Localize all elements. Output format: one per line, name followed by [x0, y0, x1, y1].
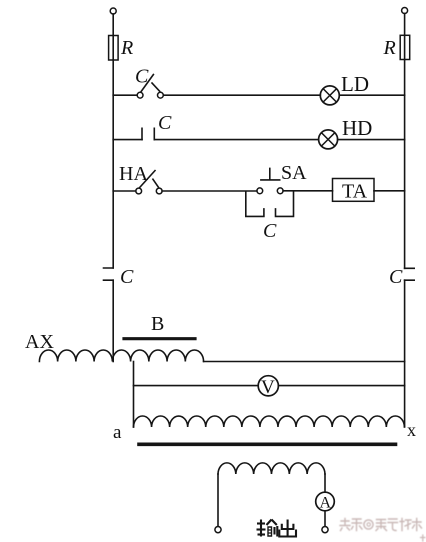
capacitor C (right): [405, 268, 415, 280]
terminal right top: [402, 8, 408, 14]
wire output right leg upper: [324, 474, 326, 492]
wire row2 mid: [154, 139, 318, 141]
contact C row2: [141, 128, 143, 139]
svg-text:HA: HA: [119, 163, 148, 185]
capacitor C (left): [104, 268, 114, 280]
wire row3 TA to right bus: [374, 190, 405, 192]
switch C row1: [137, 92, 143, 98]
voltmeter V: [258, 376, 278, 396]
wire winding to right bus: [204, 361, 405, 363]
svg-text:HD: HD: [342, 116, 372, 140]
relay TA: [333, 179, 375, 202]
wire output right leg lower: [324, 511, 326, 527]
svg-text:TA: TA: [342, 181, 368, 203]
wire right bus: [404, 60, 406, 269]
svg-text:A: A: [320, 495, 332, 512]
wire tap to winding a-x: [133, 362, 135, 428]
wire V row: [134, 385, 405, 387]
svg-text:V: V: [261, 377, 275, 398]
svg-text:x: x: [407, 420, 416, 440]
svg-text:SA: SA: [281, 162, 307, 184]
switch HA: [136, 188, 142, 194]
wire right bus top: [404, 14, 406, 36]
resistor R (left): [112, 36, 114, 61]
svg-text:LD: LD: [341, 72, 369, 96]
wire row2 right: [338, 139, 405, 141]
svg-text:R: R: [120, 37, 133, 59]
svg-text:AX: AX: [25, 331, 54, 353]
output terminal right: [322, 527, 328, 533]
label 输出 (output) drawn strokes: [257, 520, 297, 537]
wire left bus top: [112, 14, 114, 36]
ammeter A: [316, 492, 335, 511]
output winding: [218, 463, 325, 474]
lamp LD: [320, 86, 339, 105]
wire left bus lower: [112, 280, 114, 361]
pushbutton SA actuator: [261, 168, 280, 180]
wire row2 left: [113, 139, 142, 141]
svg-text:R: R: [383, 37, 396, 59]
svg-text:C: C: [158, 112, 172, 134]
lamp HD: [319, 130, 338, 149]
core bar: [139, 442, 396, 446]
winding a-x: [134, 416, 405, 427]
svg-text:a: a: [113, 422, 122, 443]
terminal left top: [110, 8, 116, 14]
svg-text:B: B: [151, 313, 164, 335]
watermark 头条@电气技术: [340, 519, 425, 542]
wire row1 left: [113, 94, 137, 96]
wire row1 mid: [163, 94, 320, 96]
wire row3 left: [113, 190, 136, 192]
svg-text:C: C: [135, 66, 149, 88]
wire left bus: [112, 60, 114, 268]
wire right bus lower: [404, 280, 406, 427]
wire row3 HA to SA: [162, 190, 257, 192]
brush B bar: [124, 337, 195, 340]
resistor R (right): [404, 35, 406, 59]
linked contact C under SA: [246, 192, 264, 216]
wire row1 right: [339, 94, 404, 96]
wire row3 SA to TA: [283, 190, 332, 192]
svg-text:C: C: [263, 220, 277, 242]
wire output left leg: [217, 474, 219, 526]
autotransformer winding AX: [39, 350, 203, 362]
svg-text:C: C: [120, 266, 134, 288]
svg-text:C: C: [389, 266, 403, 288]
pushbutton SA contacts: [257, 188, 263, 194]
output terminal left: [215, 527, 221, 533]
